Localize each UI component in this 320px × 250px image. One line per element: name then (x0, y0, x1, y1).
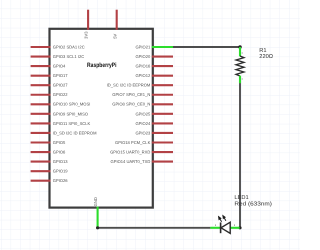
svg-text:GPIO7 SPI0_CE1_N: GPIO7 SPI0_CE1_N (112, 92, 150, 97)
junction at R1 top node (238, 45, 242, 49)
svg-text:GPIO15 UART0_RXD: GPIO15 UART0_RXD (110, 149, 150, 154)
svg-text:GND: GND (93, 197, 98, 206)
pin ID_SC (right) (107, 83, 173, 88)
pin GPIO15 (right) (110, 149, 173, 154)
svg-text:GPIO23: GPIO23 (136, 130, 152, 135)
svg-text:GPIO5: GPIO5 (53, 140, 66, 145)
svg-text:GPIO11 SPI0_SCLK: GPIO11 SPI0_SCLK (53, 121, 91, 126)
terminal tick R1 bottom (242, 78, 243, 80)
svg-text:GPIO4: GPIO4 (53, 64, 66, 69)
pin GPIO13 (left) (31, 159, 69, 164)
resistor R1 (236, 47, 244, 83)
svg-text:220Ω: 220Ω (259, 54, 273, 60)
pin GPIO12 (right) (136, 73, 173, 78)
svg-text:3V3: 3V3 (84, 31, 89, 39)
svg-text:GPIO21: GPIO21 (136, 44, 152, 49)
svg-text:GPIO18 PCM_CLK: GPIO18 PCM_CLK (115, 140, 151, 145)
pin GPIO11 (left) (31, 121, 91, 126)
pin GPIO26 (left) (31, 178, 69, 183)
svg-text:5V: 5V (112, 34, 117, 39)
svg-text:GPIO26: GPIO26 (53, 178, 69, 183)
pin GPIO9 (left) (31, 111, 88, 116)
svg-text:ID_SD I2C ID EEPROM: ID_SD I2C ID EEPROM (53, 130, 97, 135)
svg-text:ID_SC I2C ID EEPROM: ID_SC I2C ID EEPROM (107, 83, 151, 88)
junction at LED anode node (238, 226, 241, 229)
svg-text:R1: R1 (259, 48, 266, 54)
pin 3V3 (top) (84, 10, 89, 39)
RaspberryPi module body (50, 29, 153, 208)
pin GPIO17 (left) (31, 73, 69, 78)
pin GPIO7 (right) (112, 92, 173, 97)
pin GPIO10 (left) (31, 102, 91, 107)
svg-text:GPIO2 SDA1 I2C: GPIO2 SDA1 I2C (53, 44, 85, 49)
pin GPIO5 (left) (31, 140, 66, 145)
svg-text:GPIO12: GPIO12 (136, 73, 152, 78)
wire GPIO21 to R1 top (173, 46, 240, 48)
svg-text:GPIO10 SPI0_MOSI: GPIO10 SPI0_MOSI (53, 102, 91, 107)
wire GND to LED cathode (98, 227, 211, 229)
pin GPIO16 (right) (136, 64, 173, 69)
svg-text:GPIO8 SPI0_CE0_N: GPIO8 SPI0_CE0_N (112, 102, 150, 107)
svg-text:GPIO16: GPIO16 (136, 64, 152, 69)
svg-text:GPIO24: GPIO24 (136, 121, 152, 126)
svg-text:GPIO14 UART0_TXD: GPIO14 UART0_TXD (111, 159, 151, 164)
terminal tick LED cathode leg (214, 224, 216, 226)
svg-text:LED1: LED1 (234, 195, 248, 201)
pin GPIO27 (left) (31, 83, 69, 88)
terminal tick LED anode leg (234, 224, 236, 226)
wire R1 bottom to LED anode (239, 83, 241, 228)
pin GPIO20 (right) (136, 54, 173, 59)
pin GPIO6 (left) (31, 149, 66, 154)
pin GPIO22 (left) (31, 92, 69, 97)
terminal tick R1 top (242, 52, 243, 54)
svg-text:GPIO27: GPIO27 (53, 83, 69, 88)
svg-text:GPIO20: GPIO20 (136, 54, 152, 59)
pin GPIO3 (left) (31, 54, 85, 59)
svg-text:GPIO22: GPIO22 (53, 92, 69, 97)
pin GPIO18 (right) (115, 140, 173, 145)
pin GND (bottom, ground net) (93, 197, 98, 228)
pin GPIO21 (right) (136, 44, 173, 49)
svg-text:GPIO19: GPIO19 (53, 169, 69, 174)
svg-text:GPIO17: GPIO17 (53, 73, 69, 78)
svg-text:GPIO9 SPI0_MISO: GPIO9 SPI0_MISO (53, 111, 88, 116)
pin GPIO2 (left) (31, 44, 85, 49)
pin ID_SD (left) (31, 130, 97, 135)
svg-text:GPIO13: GPIO13 (53, 159, 69, 164)
pin GPIO4 (left) (31, 64, 66, 69)
pin GPIO8 (right) (112, 102, 173, 107)
svg-text:RaspberryPi: RaspberryPi (87, 62, 117, 69)
pin GPIO24 (right) (136, 121, 173, 126)
svg-text:GPIO3 SCL1 I2C: GPIO3 SCL1 I2C (53, 54, 84, 59)
junction at GND wire bend (96, 226, 99, 229)
pin GPIO14 (right) (111, 159, 173, 164)
LED LED1 (210, 216, 239, 234)
pin 5V (top) (112, 10, 117, 39)
svg-text:GPIO25: GPIO25 (136, 111, 152, 116)
pin GPIO19 (left) (31, 169, 69, 174)
pin GPIO25 (right) (136, 111, 173, 116)
pin GPIO23 (right) (136, 130, 173, 135)
svg-text:GPIO6: GPIO6 (53, 149, 66, 154)
svg-text:Red (633nm): Red (633nm) (234, 200, 272, 207)
